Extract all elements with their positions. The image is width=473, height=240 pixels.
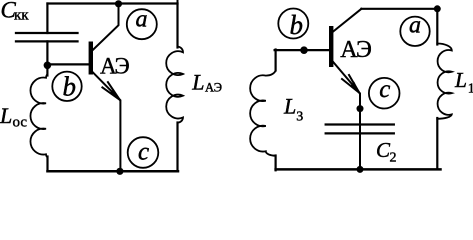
wire: left circuit right rail top stub: [176, 4, 178, 48]
terminal a (right circuit): [400, 17, 429, 46]
wire: capacitor bottom stub to node b: [46, 41, 48, 75]
svg-text:АЭ: АЭ: [205, 81, 222, 95]
transistor АЭ (left): emitter arrowhead: [102, 82, 119, 100]
wire: stub tick above top-right corner: [177, 0, 179, 4]
junction dot: node b marker (right circuit): [300, 46, 308, 54]
svg-text:1: 1: [468, 82, 473, 97]
junction dot: top-right corner node (right circuit): [434, 5, 441, 12]
transistor АЭ (left): emitter lead: [93, 72, 121, 171]
svg-text:c: c: [138, 139, 149, 166]
wire: right circuit left rail top stub: [275, 50, 277, 71]
capacitor C2: [326, 125, 394, 134]
svg-text:L: L: [191, 69, 204, 94]
wire: left circuit top-left corner down to capacitor: [46, 4, 48, 34]
svg-text:ос: ос: [13, 114, 28, 130]
wire: left circuit right rail bottom stub: [176, 123, 178, 172]
junction dot: C2 bottom node on bottom rail: [357, 166, 364, 173]
svg-text:b: b: [290, 10, 304, 40]
transistor АЭ (right): emitter arrowhead: [342, 75, 359, 93]
svg-text:b: b: [63, 72, 77, 102]
wire: left circuit bottom rail: [48, 170, 179, 173]
transistor АЭ (left): base bar: [89, 42, 93, 75]
wire: base lead (right circuit): [275, 49, 329, 51]
wire: right circuit top rail: [361, 8, 437, 10]
svg-text:a: a: [409, 13, 421, 39]
transistor АЭ (left): collector lead: [93, 4, 119, 51]
wire: right circuit bottom rail: [276, 168, 441, 171]
svg-text:a: a: [136, 6, 148, 32]
junction dot: node c marker (right circuit): [357, 105, 364, 112]
terminal c (right circuit): [369, 78, 400, 109]
transistor АЭ (right): emitter lead: [333, 62, 360, 169]
wire: right circuit left rail bottom stub: [275, 156, 277, 171]
svg-text:кк: кк: [14, 8, 29, 24]
wire: Lос bottom stub: [46, 157, 48, 172]
svg-text:АЭ: АЭ: [340, 37, 371, 63]
junction dot: emitter node on bottom rail (left): [116, 168, 123, 175]
inductor L3: [250, 70, 275, 156]
svg-text:АЭ: АЭ: [100, 54, 130, 79]
svg-text:c: c: [379, 76, 390, 103]
transistor АЭ (right): collector lead: [333, 9, 361, 32]
svg-text:L: L: [283, 93, 296, 118]
capacitor Cкк: [16, 33, 78, 41]
terminal b (left circuit): [52, 72, 81, 101]
junction dot: node b (left circuit): [44, 62, 52, 70]
terminal a (left circuit): [127, 9, 157, 39]
inductor Lос: [30, 75, 47, 158]
svg-text:L: L: [454, 68, 467, 92]
wire: base lead (left circuit): [47, 63, 88, 65]
wire: right circuit right rail bottom stub: [436, 118, 438, 169]
wire: left circuit top rail: [48, 2, 178, 4]
svg-text:2: 2: [390, 150, 397, 165]
terminal b (right circuit): [278, 9, 308, 39]
svg-text:3: 3: [296, 110, 303, 125]
transistor АЭ (right): base bar: [329, 26, 333, 67]
junction dot: collector node on top rail (left): [115, 0, 122, 7]
svg-text:L: L: [0, 103, 12, 128]
inductor L1: [437, 44, 452, 119]
wire: right circuit right rail top stub: [436, 9, 438, 45]
inductor LАЭ: [166, 47, 183, 123]
terminal c (left circuit): [128, 137, 159, 168]
